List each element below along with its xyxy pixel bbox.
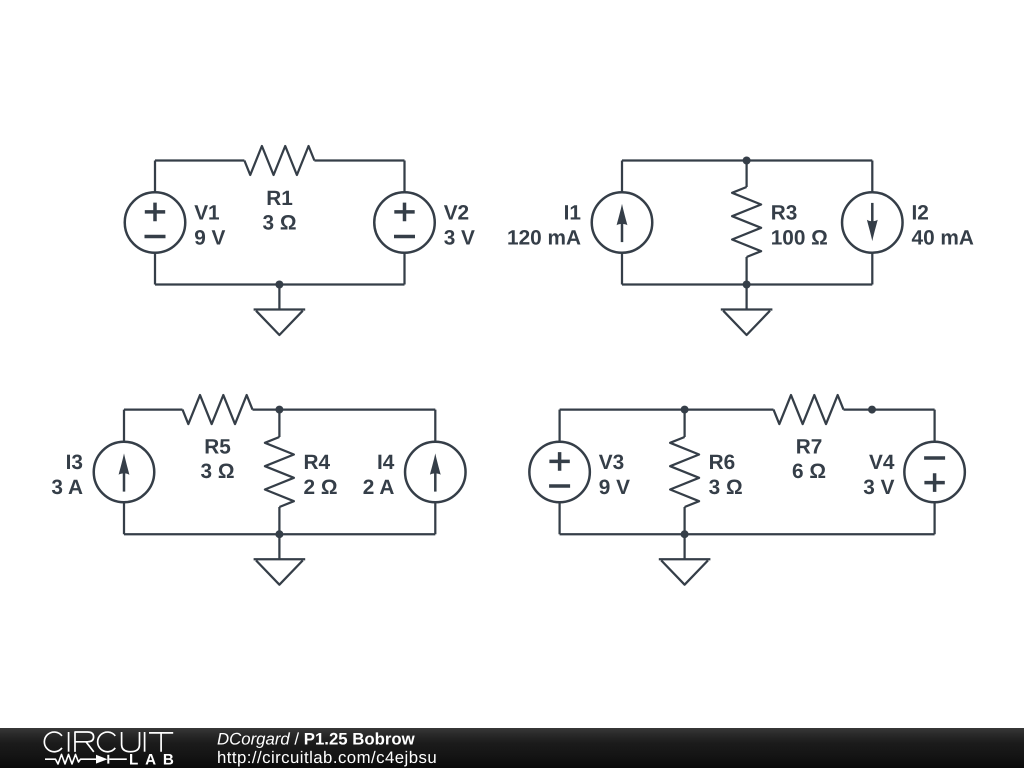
svg-text:3 V: 3 V — [863, 476, 894, 499]
svg-text:I4: I4 — [377, 451, 395, 474]
svg-text:V4: V4 — [869, 451, 895, 474]
svg-text:LAB: LAB — [129, 751, 181, 768]
svg-text:R3: R3 — [771, 202, 798, 225]
svg-text:V1: V1 — [194, 202, 219, 225]
svg-text:DCorgard / P1.25 Bobrow: DCorgard / P1.25 Bobrow — [217, 729, 416, 748]
svg-text:R5: R5 — [204, 436, 231, 459]
svg-text:http://circuitlab.com/c4ejbsu: http://circuitlab.com/c4ejbsu — [217, 748, 437, 767]
svg-text:3 A: 3 A — [51, 476, 83, 499]
svg-text:2 Ω: 2 Ω — [304, 476, 338, 499]
svg-text:9 V: 9 V — [599, 476, 630, 499]
svg-text:9 V: 9 V — [194, 226, 225, 249]
svg-text:I3: I3 — [66, 451, 83, 474]
svg-text:100 Ω: 100 Ω — [771, 226, 828, 249]
svg-text:V2: V2 — [444, 202, 469, 225]
svg-text:3 Ω: 3 Ω — [262, 212, 296, 235]
svg-text:3 Ω: 3 Ω — [709, 476, 743, 499]
svg-text:2 A: 2 A — [363, 476, 395, 499]
svg-text:R6: R6 — [709, 451, 736, 474]
svg-text:3 Ω: 3 Ω — [200, 460, 234, 483]
svg-text:R4: R4 — [304, 451, 331, 474]
svg-text:I2: I2 — [912, 202, 929, 225]
svg-text:I1: I1 — [564, 202, 581, 225]
svg-text:R1: R1 — [266, 187, 293, 210]
svg-text:6 Ω: 6 Ω — [792, 460, 826, 483]
svg-text:R7: R7 — [796, 436, 823, 459]
svg-text:40 mA: 40 mA — [912, 226, 974, 249]
svg-text:120 mA: 120 mA — [507, 226, 581, 249]
svg-text:3 V: 3 V — [444, 226, 475, 249]
svg-text:V3: V3 — [599, 451, 624, 474]
